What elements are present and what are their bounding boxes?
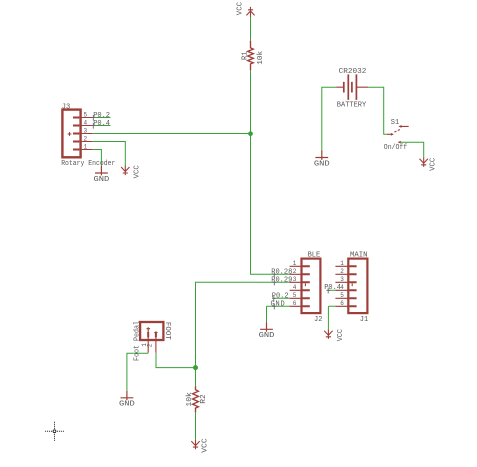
svg-text:Rotary Encoder: Rotary Encoder [61, 160, 115, 168]
svg-text:2: 2 [340, 268, 344, 275]
svg-text:GND: GND [119, 401, 135, 409]
svg-text:6: 6 [340, 300, 344, 307]
svg-text:GND: GND [259, 332, 275, 340]
svg-text:P0.4: P0.4 [324, 284, 341, 292]
svg-text:P0.2: P0.2 [272, 293, 289, 301]
svg-text:P0.28: P0.28 [271, 269, 292, 277]
svg-text:VCC: VCC [202, 438, 210, 453]
svg-text:2: 2 [84, 136, 88, 143]
svg-text:GND: GND [270, 300, 285, 308]
svg-text:6: 6 [293, 300, 297, 307]
svg-text:1: 1 [84, 144, 88, 151]
svg-text:3: 3 [293, 276, 297, 283]
svg-text:BATTERY: BATTERY [337, 101, 367, 109]
svg-text:J1: J1 [360, 316, 368, 324]
svg-text:MAIN: MAIN [350, 252, 368, 260]
svg-text:FOOT: FOOT [163, 322, 171, 340]
svg-text:5: 5 [84, 112, 88, 119]
svg-text:P0.2: P0.2 [93, 112, 110, 120]
svg-text:P0.4: P0.4 [93, 120, 110, 128]
svg-text:J3: J3 [62, 104, 70, 112]
svg-text:S1: S1 [391, 119, 399, 127]
svg-text:4: 4 [84, 120, 88, 127]
svg-text:J2: J2 [314, 316, 322, 324]
svg-text:R1: R1 [241, 52, 249, 61]
svg-text:3: 3 [340, 276, 344, 283]
svg-text:CR2032: CR2032 [339, 68, 367, 76]
svg-text:VCC: VCC [237, 2, 245, 15]
svg-text:10k: 10k [186, 392, 194, 407]
svg-text:On/Off: On/Off [384, 144, 407, 152]
svg-text:3: 3 [84, 128, 88, 135]
svg-text:4: 4 [293, 284, 297, 291]
svg-text:VCC: VCC [337, 329, 345, 341]
svg-text:VCC: VCC [133, 165, 141, 178]
svg-text:10k: 10k [257, 51, 265, 65]
svg-text:4: 4 [340, 284, 344, 291]
svg-text:Foot Pedal: Foot Pedal [134, 321, 142, 361]
svg-text:BLE: BLE [308, 252, 321, 260]
svg-text:R2: R2 [200, 394, 208, 404]
svg-text:5: 5 [340, 292, 344, 299]
svg-text:5: 5 [293, 292, 297, 299]
svg-text:1: 1 [340, 260, 344, 267]
svg-text:GND: GND [94, 176, 110, 184]
svg-text:1: 1 [293, 260, 297, 267]
svg-text:VCC: VCC [430, 158, 438, 171]
svg-text:GND: GND [314, 161, 330, 169]
svg-text:2: 2 [293, 268, 297, 275]
svg-text:2: 2 [147, 343, 154, 347]
svg-text:P0.29: P0.29 [271, 277, 292, 285]
